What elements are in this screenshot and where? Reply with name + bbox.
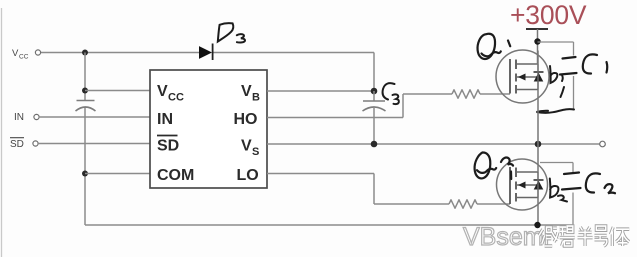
wire Q2 source to bottom rail [537, 198, 539, 226]
wire Q1 drain to rail [537, 51, 539, 65]
wire COM pin [85, 173, 150, 175]
svg-text:B: B [252, 92, 260, 104]
wire resistor to Q1 gate [480, 93, 510, 95]
junction Vcc-pin branch [82, 88, 88, 94]
wire vertical Vcc branch [84, 53, 86, 226]
label body-diode b1/D1 (handwritten) [550, 66, 564, 97]
wire Vcc pin [85, 90, 150, 92]
power +300V [510, 0, 587, 65]
junction VB node [371, 88, 378, 95]
junction Q1 source / Q2 drain on VS [535, 141, 542, 148]
junction C3 bottom / VS [371, 141, 378, 148]
label body-diode D2 (handwritten) [550, 179, 567, 202]
wire Vcc rail (top) [41, 52, 374, 54]
svg-text:IN: IN [157, 111, 173, 128]
edge artifact (faint scan border) [1, 8, 3, 257]
svg-text:SD: SD [157, 138, 179, 155]
wire D3 cathode to VB node [373, 53, 375, 92]
wire Q2 drain to VS [537, 144, 539, 172]
capacitor C2 (handwritten plates) [562, 173, 581, 190]
junction COM branch [82, 171, 88, 177]
wire C1 bottom (hand squiggle) [537, 109, 575, 113]
op-amp U1 gate-driver IC box [150, 70, 267, 188]
node SD terminal [10, 138, 38, 150]
pin label SD [157, 136, 179, 155]
wire bottom return rail [85, 224, 573, 226]
svg-text:V: V [241, 83, 252, 100]
svg-text:IN: IN [14, 112, 24, 123]
pin label VB [241, 83, 260, 104]
wire C2 top bracket [540, 163, 573, 226]
label D3 (handwritten) [218, 23, 245, 42]
svg-text:LO: LO [237, 167, 259, 184]
pin label VS [241, 138, 259, 159]
svg-text:+300V: +300V [510, 0, 587, 30]
svg-text:HO: HO [234, 111, 258, 128]
wire IN [39, 116, 150, 118]
junction Vcc/top-rail [82, 50, 88, 56]
svg-text:S: S [252, 146, 259, 158]
resistor R2 (Q2 gate, unlabeled) [449, 200, 477, 208]
diode D3 [199, 44, 213, 61]
wire Q1 source to VS [537, 90, 539, 145]
watermark VBsemi微碧半导体 [463, 223, 629, 251]
wire VB [267, 90, 374, 92]
svg-text:COM: COM [157, 167, 194, 184]
svg-text:CC: CC [19, 54, 29, 61]
wire VS rail [267, 143, 600, 145]
label C1 (handwritten) [583, 54, 607, 73]
node IN terminal [14, 112, 39, 123]
svg-text:V: V [241, 138, 252, 155]
label Q1 (handwritten) [478, 34, 511, 59]
label Q2 (handwritten) [475, 152, 513, 179]
capacitor (Vcc decoupling, unlabeled) [76, 101, 96, 112]
pin label Vcc [157, 83, 184, 104]
wire C1 top bracket [538, 42, 574, 109]
wire resistor to Q2 gate [477, 203, 510, 205]
junction +300V / C1 [534, 38, 540, 44]
label C3 (handwritten) [383, 83, 399, 104]
svg-text:CC: CC [168, 92, 184, 104]
wire LO to gate resistor [267, 174, 449, 205]
svg-text:V: V [12, 48, 19, 59]
svg-text:VBsemi: VBsemi [463, 223, 549, 251]
node VS terminal (right) [600, 141, 606, 147]
node Vcc terminal [12, 48, 41, 61]
wire SD [38, 143, 150, 145]
label C2 (handwritten) [586, 173, 615, 193]
svg-text:SD: SD [10, 139, 24, 150]
capacitor C1 (handwritten plates) [560, 57, 577, 75]
resistor R1 (Q1 gate, unlabeled) [452, 90, 480, 98]
capacitor C3 [363, 91, 386, 144]
wire HO to gate resistor [267, 94, 452, 118]
svg-text:V: V [157, 83, 168, 100]
transistor Q2 (N-MOSFET) [497, 159, 548, 210]
junction Q2 source / bottom rail [534, 222, 540, 228]
transistor Q1 (N-MOSFET) [496, 50, 549, 103]
